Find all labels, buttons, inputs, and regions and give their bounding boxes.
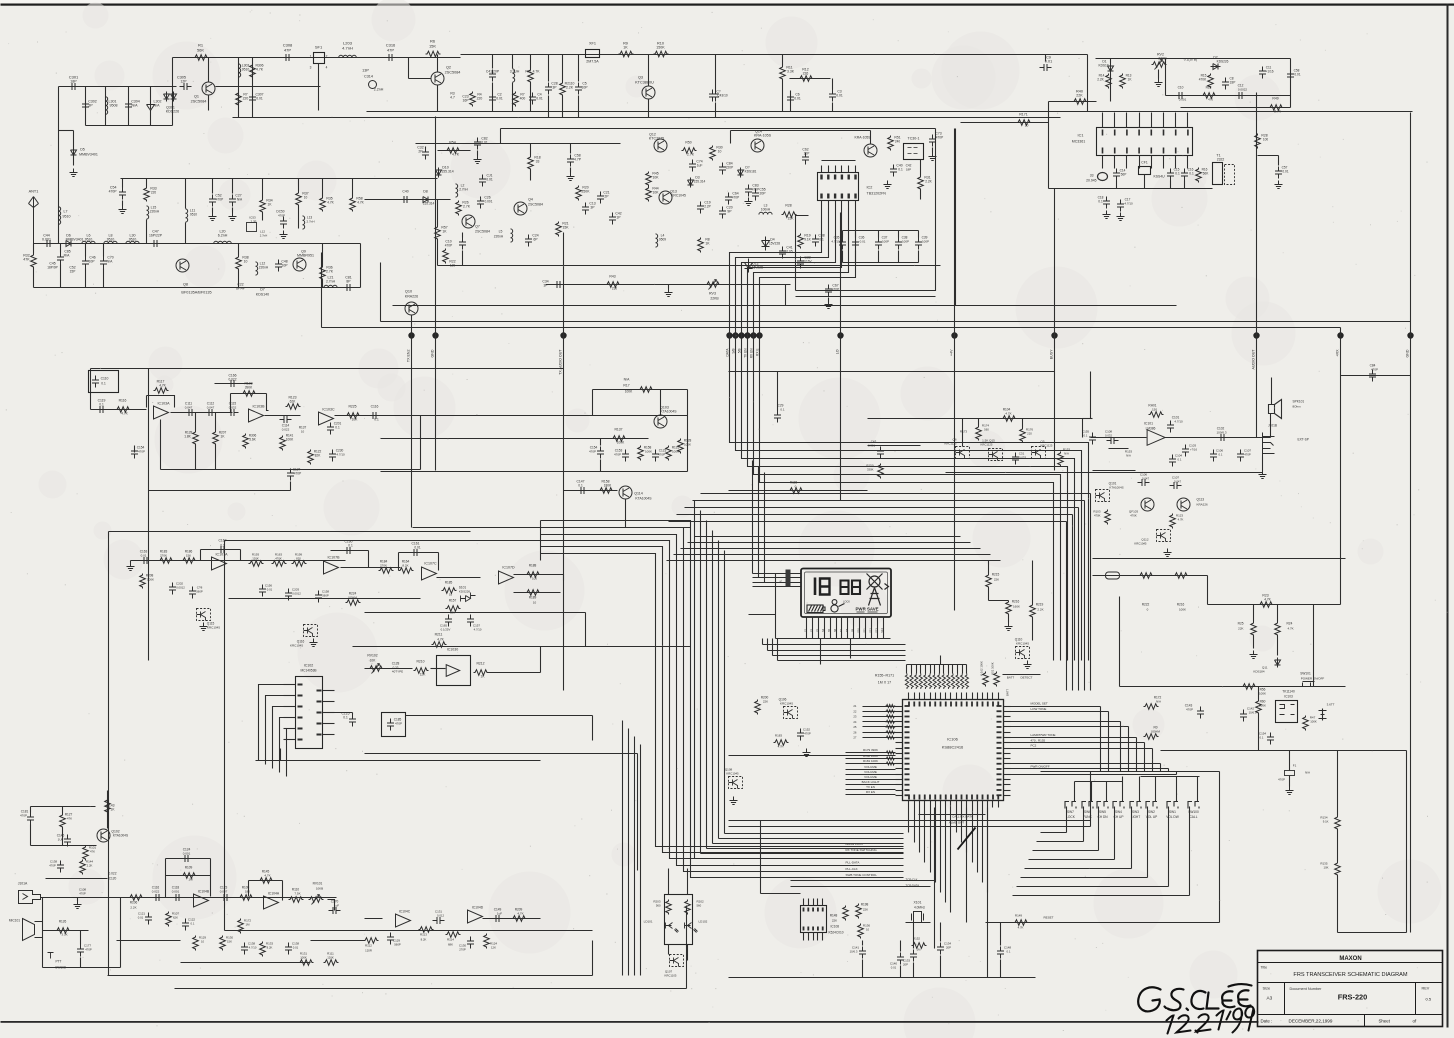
capacitor C12 xyxy=(1235,92,1247,99)
svg-text:CF1: CF1 xyxy=(1141,161,1148,165)
ground xyxy=(119,206,127,214)
wire bottom long xyxy=(729,977,1036,979)
wire xyxy=(562,55,564,82)
resistor R137b xyxy=(612,436,627,442)
resistor R113 xyxy=(419,927,434,933)
wire audio out xyxy=(1165,437,1271,439)
svg-text:100K: 100K xyxy=(625,390,633,394)
svg-text:0.1: 0.1 xyxy=(1260,736,1264,740)
resistor R203 xyxy=(666,900,672,915)
svg-text:R106: R106 xyxy=(130,901,138,905)
wire IC106 bottom pin 17 xyxy=(992,801,994,808)
capacitor C10 xyxy=(1175,92,1187,99)
svg-text:Sheet: Sheet xyxy=(1379,1019,1391,1024)
resistor R58 xyxy=(350,197,356,212)
transistor Q9 xyxy=(293,258,306,271)
svg-text:470P: 470P xyxy=(85,948,92,952)
svg-text:4.7K: 4.7K xyxy=(159,384,166,388)
svg-text:10P: 10P xyxy=(581,86,588,90)
transformer T1 dashed xyxy=(1225,165,1235,185)
IC106 left pin mark 9 xyxy=(905,752,910,754)
wire xyxy=(408,58,410,79)
IC106 bottom pin mark 15 xyxy=(987,795,989,800)
svg-text:1uF: 1uF xyxy=(497,912,502,916)
wire xyxy=(900,941,902,952)
svg-text:S9: S9 xyxy=(851,628,855,632)
wire xyxy=(30,807,32,813)
resistor R168 xyxy=(965,674,968,690)
svg-text:S12: S12 xyxy=(868,628,872,633)
wire xyxy=(381,471,688,473)
svg-text:KDS226: KDS226 xyxy=(166,110,179,114)
op-amp IC107B xyxy=(324,561,339,574)
svg-text:470P: 470P xyxy=(1371,368,1378,372)
ic IC102 MC14053B xyxy=(296,677,323,749)
resistor R184 xyxy=(379,568,394,574)
svg-text:Q10: Q10 xyxy=(405,290,412,294)
wire IC106 left pin 11 xyxy=(896,758,903,760)
svg-text:S11: S11 xyxy=(863,628,867,633)
wire IC106 bottom pin 16 xyxy=(987,801,989,808)
wire xyxy=(195,413,197,431)
wire xyxy=(919,814,986,816)
svg-text:1M X 17: 1M X 17 xyxy=(878,681,891,685)
IC106 top pin mark 3 xyxy=(924,702,926,707)
svg-text:6P: 6P xyxy=(533,238,538,242)
wire xyxy=(855,231,857,238)
svg-text:BF0135A/BF0135: BF0135A/BF0135 xyxy=(181,291,211,295)
svg-text:N/A: N/A xyxy=(1064,452,1069,456)
svg-text:3.3K: 3.3K xyxy=(787,70,795,74)
IC2 pin mark 0 xyxy=(820,175,822,180)
wire xyxy=(796,296,936,298)
wire +RX vertical xyxy=(1340,328,1342,560)
svg-text:3.3K: 3.3K xyxy=(61,933,67,937)
resistor R9 xyxy=(619,51,634,57)
wire xyxy=(962,665,964,674)
wire xyxy=(85,244,87,257)
svg-text:470P: 470P xyxy=(138,450,145,454)
capacitor CJ1 xyxy=(479,175,486,187)
wire R180 200K xyxy=(846,758,896,760)
svg-text:560P: 560P xyxy=(322,594,329,598)
wire xyxy=(335,712,353,714)
svg-text:RESET: RESET xyxy=(1043,916,1053,920)
svg-text:BATT: BATT xyxy=(1007,676,1015,680)
svg-text:0.001: 0.001 xyxy=(485,200,493,204)
svg-text:J101A: J101A xyxy=(18,882,28,886)
op-amp IC103C xyxy=(319,412,334,425)
svg-text:Q8: Q8 xyxy=(183,283,188,287)
op-amp IC104B xyxy=(194,894,209,907)
wire IC106 input xyxy=(863,706,896,708)
wire IC106 bottom route 1 xyxy=(908,808,910,833)
svg-text:5.6K: 5.6K xyxy=(249,438,256,442)
capacitor C167 xyxy=(217,546,229,553)
wire xyxy=(321,287,361,289)
wire IC1 left xyxy=(1048,102,1050,189)
svg-text:0.01: 0.01 xyxy=(496,97,503,101)
svg-text:S/B: S/B xyxy=(732,349,736,354)
wire +4V vertical down xyxy=(954,336,956,611)
svg-text:IC1030: IC1030 xyxy=(447,648,459,652)
wire IC1 pin bottom 3 xyxy=(1126,156,1128,169)
wire xyxy=(562,96,564,118)
ground xyxy=(229,213,237,221)
svg-text:GND: GND xyxy=(1406,349,1410,357)
svg-text:S1: S1 xyxy=(804,628,808,632)
svg-text:R183: R183 xyxy=(775,734,783,738)
wire xyxy=(489,672,541,674)
IC108 pin mark b0 xyxy=(803,927,805,931)
svg-text:ALMD OUT: ALMD OUT xyxy=(949,821,965,825)
wire xyxy=(1049,101,1097,103)
wire squelch bottom rail xyxy=(946,472,1263,474)
svg-text:R188: R188 xyxy=(529,564,537,568)
wire IC2 pin bottom 3 xyxy=(835,201,837,211)
IC106 top pin mark 12 xyxy=(971,702,973,707)
svg-text:2.2K: 2.2K xyxy=(925,180,932,184)
wire IC106 input xyxy=(863,737,896,739)
wire IC106 right pin 1 xyxy=(1004,706,1011,708)
IC106 right pin mark 4 xyxy=(997,726,1002,728)
svg-text:RV101: RV101 xyxy=(313,882,323,886)
svg-text:470P: 470P xyxy=(79,892,86,896)
wire IC1 pin bottom 8 xyxy=(1187,156,1189,169)
svg-text:KDS181: KDS181 xyxy=(745,170,757,174)
wire xyxy=(365,612,586,614)
wire xyxy=(107,791,109,829)
svg-text:0.1: 0.1 xyxy=(1007,950,1011,954)
IC106 top pin mark 7 xyxy=(945,702,947,707)
transistor Q108 xyxy=(729,777,743,789)
wire SW5 down xyxy=(1098,807,1100,851)
wire IC106 right pin 2 xyxy=(1004,711,1011,713)
wire xyxy=(134,446,136,453)
wire xyxy=(282,881,284,901)
wire xyxy=(592,941,594,976)
resistor R21x xyxy=(556,222,562,237)
wire xyxy=(715,103,717,118)
LED LD102 xyxy=(685,923,698,933)
microphone MIC101 xyxy=(23,919,43,941)
IC106 bottom pin mark 3 xyxy=(924,795,926,800)
ground xyxy=(1250,651,1258,659)
wire xyxy=(760,821,762,894)
svg-text:R222: R222 xyxy=(1142,603,1150,607)
wire top long xyxy=(461,54,1088,56)
switch SW2 xyxy=(1146,802,1157,809)
svg-text:KSS4U: KSS4U xyxy=(1154,175,1166,179)
svg-text:IC108: IC108 xyxy=(831,925,840,929)
diode D? xyxy=(738,168,744,178)
wire IC1 pin top 6 xyxy=(1163,113,1165,128)
wire xyxy=(1184,181,1186,189)
svg-text:10: 10 xyxy=(201,940,205,944)
wire IC106 left pin 10 xyxy=(896,753,903,755)
resistor R18 xyxy=(528,156,534,171)
inductor L13 xyxy=(303,216,305,229)
wire IC108 top pin 5 xyxy=(822,899,824,906)
capacitor C67 xyxy=(825,285,832,297)
resistor array element xyxy=(886,725,896,728)
op-amp IC104D xyxy=(468,910,483,923)
inductor L15 xyxy=(147,206,149,219)
wire xyxy=(932,148,934,153)
svg-text:230: 230 xyxy=(612,287,618,291)
transistor Q101 xyxy=(1096,490,1110,502)
resistor R104 xyxy=(1002,416,1017,422)
wire xyxy=(548,96,550,118)
wire xyxy=(62,807,64,814)
capacitor C301 xyxy=(68,83,80,90)
transistor Q5 xyxy=(1032,447,1046,459)
IC106 left pin mark 4 xyxy=(905,726,910,728)
IC106 left pin mark 2 xyxy=(905,716,910,718)
resistor R152 xyxy=(912,943,927,949)
wire IC102 pin left 5 xyxy=(284,728,296,730)
capacitor C59 xyxy=(567,155,574,167)
svg-text:15K: 15K xyxy=(186,554,191,558)
wire xyxy=(212,179,214,194)
trimmer RV3 arrow xyxy=(709,280,717,290)
IC106 right pin mark 12 xyxy=(997,768,1002,770)
svg-text:470: 470 xyxy=(1208,98,1213,102)
wire xyxy=(1166,95,1291,97)
capacitor C55 xyxy=(752,189,759,201)
wire xyxy=(540,647,542,673)
svg-text:3.6TT: 3.6TT xyxy=(1327,703,1335,707)
svg-text:18K: 18K xyxy=(245,890,250,894)
IC2 pin mark 4 xyxy=(848,175,850,180)
svg-text:KRC1125: KRC1125 xyxy=(945,442,957,446)
wire switch top xyxy=(1041,771,1220,773)
box C110 xyxy=(89,371,119,393)
resistor R163 xyxy=(942,674,945,690)
svg-text:100/6.3: 100/6.3 xyxy=(1216,431,1226,435)
ground xyxy=(929,153,937,161)
trimmer RV2 xyxy=(1152,62,1167,68)
capacitor C84x xyxy=(719,163,726,175)
svg-text:IC1: IC1 xyxy=(1078,134,1084,138)
svg-text:2.2K: 2.2K xyxy=(87,864,93,868)
resistor R123b xyxy=(1170,514,1176,529)
wire xyxy=(103,269,105,288)
svg-text:0.001: 0.001 xyxy=(42,238,51,242)
switch SW4 xyxy=(1113,802,1124,809)
IC106 right pin mark 5 xyxy=(997,731,1002,733)
wire box bottom left xyxy=(181,975,481,977)
switch SW100 xyxy=(1188,802,1199,809)
resistor R4 xyxy=(470,92,476,107)
ic IC108 K524C010 xyxy=(801,906,827,933)
wire xyxy=(1258,714,1260,751)
IC102 pin mark r4 xyxy=(317,734,322,736)
wire IC106 bottom pin 15 xyxy=(982,801,984,808)
wire xyxy=(729,490,868,492)
svg-text:0.001: 0.001 xyxy=(183,852,191,856)
wire xyxy=(1181,107,1291,109)
svg-text:9510: 9510 xyxy=(85,238,93,242)
capacitor C17 xyxy=(1117,200,1124,212)
wire xyxy=(530,55,532,69)
inductor L3 xyxy=(759,212,772,214)
svg-text:2.2nH: 2.2nH xyxy=(374,88,384,92)
wire xyxy=(530,144,532,156)
resistor R149 xyxy=(1014,920,1029,926)
wire xyxy=(238,270,240,288)
wire IC102 route 4 xyxy=(280,718,284,773)
capacitor C57 xyxy=(1275,167,1282,179)
svg-text:D7: D7 xyxy=(260,288,265,292)
node DATA xyxy=(726,332,732,338)
svg-text:0.01: 0.01 xyxy=(414,546,420,550)
wire xyxy=(512,55,514,69)
svg-text:10P: 10P xyxy=(88,260,95,264)
wire xyxy=(130,561,132,563)
wire xyxy=(514,574,564,576)
wire xyxy=(322,179,324,197)
wire xyxy=(1170,181,1172,189)
svg-text:D8: D8 xyxy=(423,190,428,194)
wire xyxy=(782,55,784,66)
svg-text:N/A: N/A xyxy=(1305,771,1310,775)
capacitor C157x xyxy=(467,615,474,627)
svg-text:470P: 470P xyxy=(614,453,621,457)
capacitor C39 xyxy=(915,238,922,250)
capacitor C13 xyxy=(582,203,589,215)
svg-text:3P: 3P xyxy=(544,284,548,288)
wire xyxy=(380,263,382,322)
svg-text:IC101: IC101 xyxy=(1144,422,1153,426)
svg-text:9509: 9509 xyxy=(659,238,666,242)
wire IC106 left pin 14 xyxy=(896,774,903,776)
svg-text:S4: S4 xyxy=(821,628,825,632)
svg-text:100P: 100P xyxy=(922,240,929,244)
svg-text:4.7K: 4.7K xyxy=(327,201,334,205)
svg-text:120: 120 xyxy=(450,264,456,268)
IC106 bottom pin mark 17 xyxy=(997,795,999,800)
wire xyxy=(878,251,880,263)
capacitor C139 xyxy=(241,943,248,955)
IC108 pin mark b1 xyxy=(807,927,809,931)
svg-text:EXT-SP: EXT-SP xyxy=(1298,438,1309,442)
transistor Q116 xyxy=(304,625,318,637)
wire input chain xyxy=(34,243,181,245)
svg-text:R24: R24 xyxy=(1287,622,1293,626)
wire xyxy=(1045,55,1047,62)
svg-text:4.7K: 4.7K xyxy=(121,412,128,416)
trimmer RV3 xyxy=(706,282,721,288)
capacitor C73 xyxy=(929,135,936,147)
wire IC106 top pin 10 xyxy=(956,693,958,700)
wire xyxy=(918,231,920,238)
ground xyxy=(1024,661,1032,669)
wire IC106 bottom route 4 xyxy=(924,808,926,863)
svg-text:3P: 3P xyxy=(88,104,93,108)
wire xyxy=(290,469,292,470)
svg-text:0.022: 0.022 xyxy=(152,890,160,894)
svg-text:RX EN: RX EN xyxy=(750,348,754,358)
wire IC106 right pin 7 xyxy=(1004,737,1011,739)
svg-text:SPK101: SPK101 xyxy=(1293,400,1305,404)
IC106 top pin mark 5 xyxy=(934,702,936,707)
op-amp IC107C xyxy=(422,567,437,580)
wire xyxy=(437,577,481,579)
resistor R208 xyxy=(140,574,146,589)
varactor L302 xyxy=(147,99,155,113)
wire IC106 left pin 1 xyxy=(896,706,903,708)
capacitor C88 xyxy=(812,235,819,247)
IC106 left pin mark 7 xyxy=(905,742,910,744)
wire xyxy=(181,243,321,245)
transistor Q106b xyxy=(784,707,798,719)
wire xyxy=(368,551,370,568)
wire IC106 right pin 9 xyxy=(1004,748,1011,750)
wire IC2 pin top 2 xyxy=(828,166,830,173)
svg-text:100K: 100K xyxy=(1259,692,1266,696)
svg-text:KDS140: KDS140 xyxy=(256,293,269,297)
IC102 pin mark 0 xyxy=(298,684,303,686)
svg-text:100K: 100K xyxy=(1179,608,1186,612)
capacitor C27 xyxy=(229,195,236,207)
svg-text:10K: 10K xyxy=(1324,866,1329,870)
svg-text:2P: 2P xyxy=(604,195,609,199)
filter CF1 xyxy=(1139,167,1151,175)
wire xyxy=(231,393,267,395)
svg-text:270P: 270P xyxy=(459,948,466,952)
wire LOW TONE xyxy=(1011,711,1109,713)
wire xyxy=(916,665,918,674)
wire SW6 route xyxy=(1037,841,1084,843)
wire IC106 bottom route 7 xyxy=(940,808,942,893)
wire Q1 emitter xyxy=(208,96,210,111)
resistor R23 xyxy=(1259,602,1274,608)
svg-text:220: 220 xyxy=(243,97,249,101)
inductor L203 xyxy=(339,55,357,57)
wire xyxy=(1083,418,1093,420)
diode D301 xyxy=(164,92,170,102)
wire IC106 left pin 3 xyxy=(896,716,903,718)
wire xyxy=(131,560,346,562)
wire IC106 left pin 15 xyxy=(896,779,903,781)
svg-text:4.7K: 4.7K xyxy=(1005,412,1011,416)
transistor Q10 xyxy=(405,302,418,315)
wire xyxy=(1000,960,1002,978)
wire xyxy=(31,806,96,808)
wire xyxy=(290,482,292,491)
node TX AUDIO OUT xyxy=(560,332,566,338)
svg-text:R171: R171 xyxy=(1019,113,1028,117)
wire xyxy=(105,87,107,126)
capacitor C62 xyxy=(802,153,809,165)
IC1 pin label 0 xyxy=(1102,130,1104,136)
wire IC106 input xyxy=(863,726,896,728)
IC2 pin mark b1 xyxy=(827,194,829,199)
svg-text:0.1: 0.1 xyxy=(335,426,340,430)
IC106 right pin mark 1 xyxy=(997,710,1002,712)
wire IC106 bottom pin 10 xyxy=(956,801,958,808)
svg-text:R215: R215 xyxy=(992,573,1000,577)
svg-text:N/A: N/A xyxy=(1156,700,1161,704)
wire xyxy=(862,960,864,978)
svg-text:2.2K: 2.2K xyxy=(1097,78,1104,82)
svg-text:Q113: Q113 xyxy=(1197,498,1205,502)
resistor R54 xyxy=(446,148,461,154)
capacitor C26 xyxy=(477,197,484,209)
crystal X2 20.945 xyxy=(1098,173,1108,181)
wire IC106 top pin 15 xyxy=(982,693,984,700)
